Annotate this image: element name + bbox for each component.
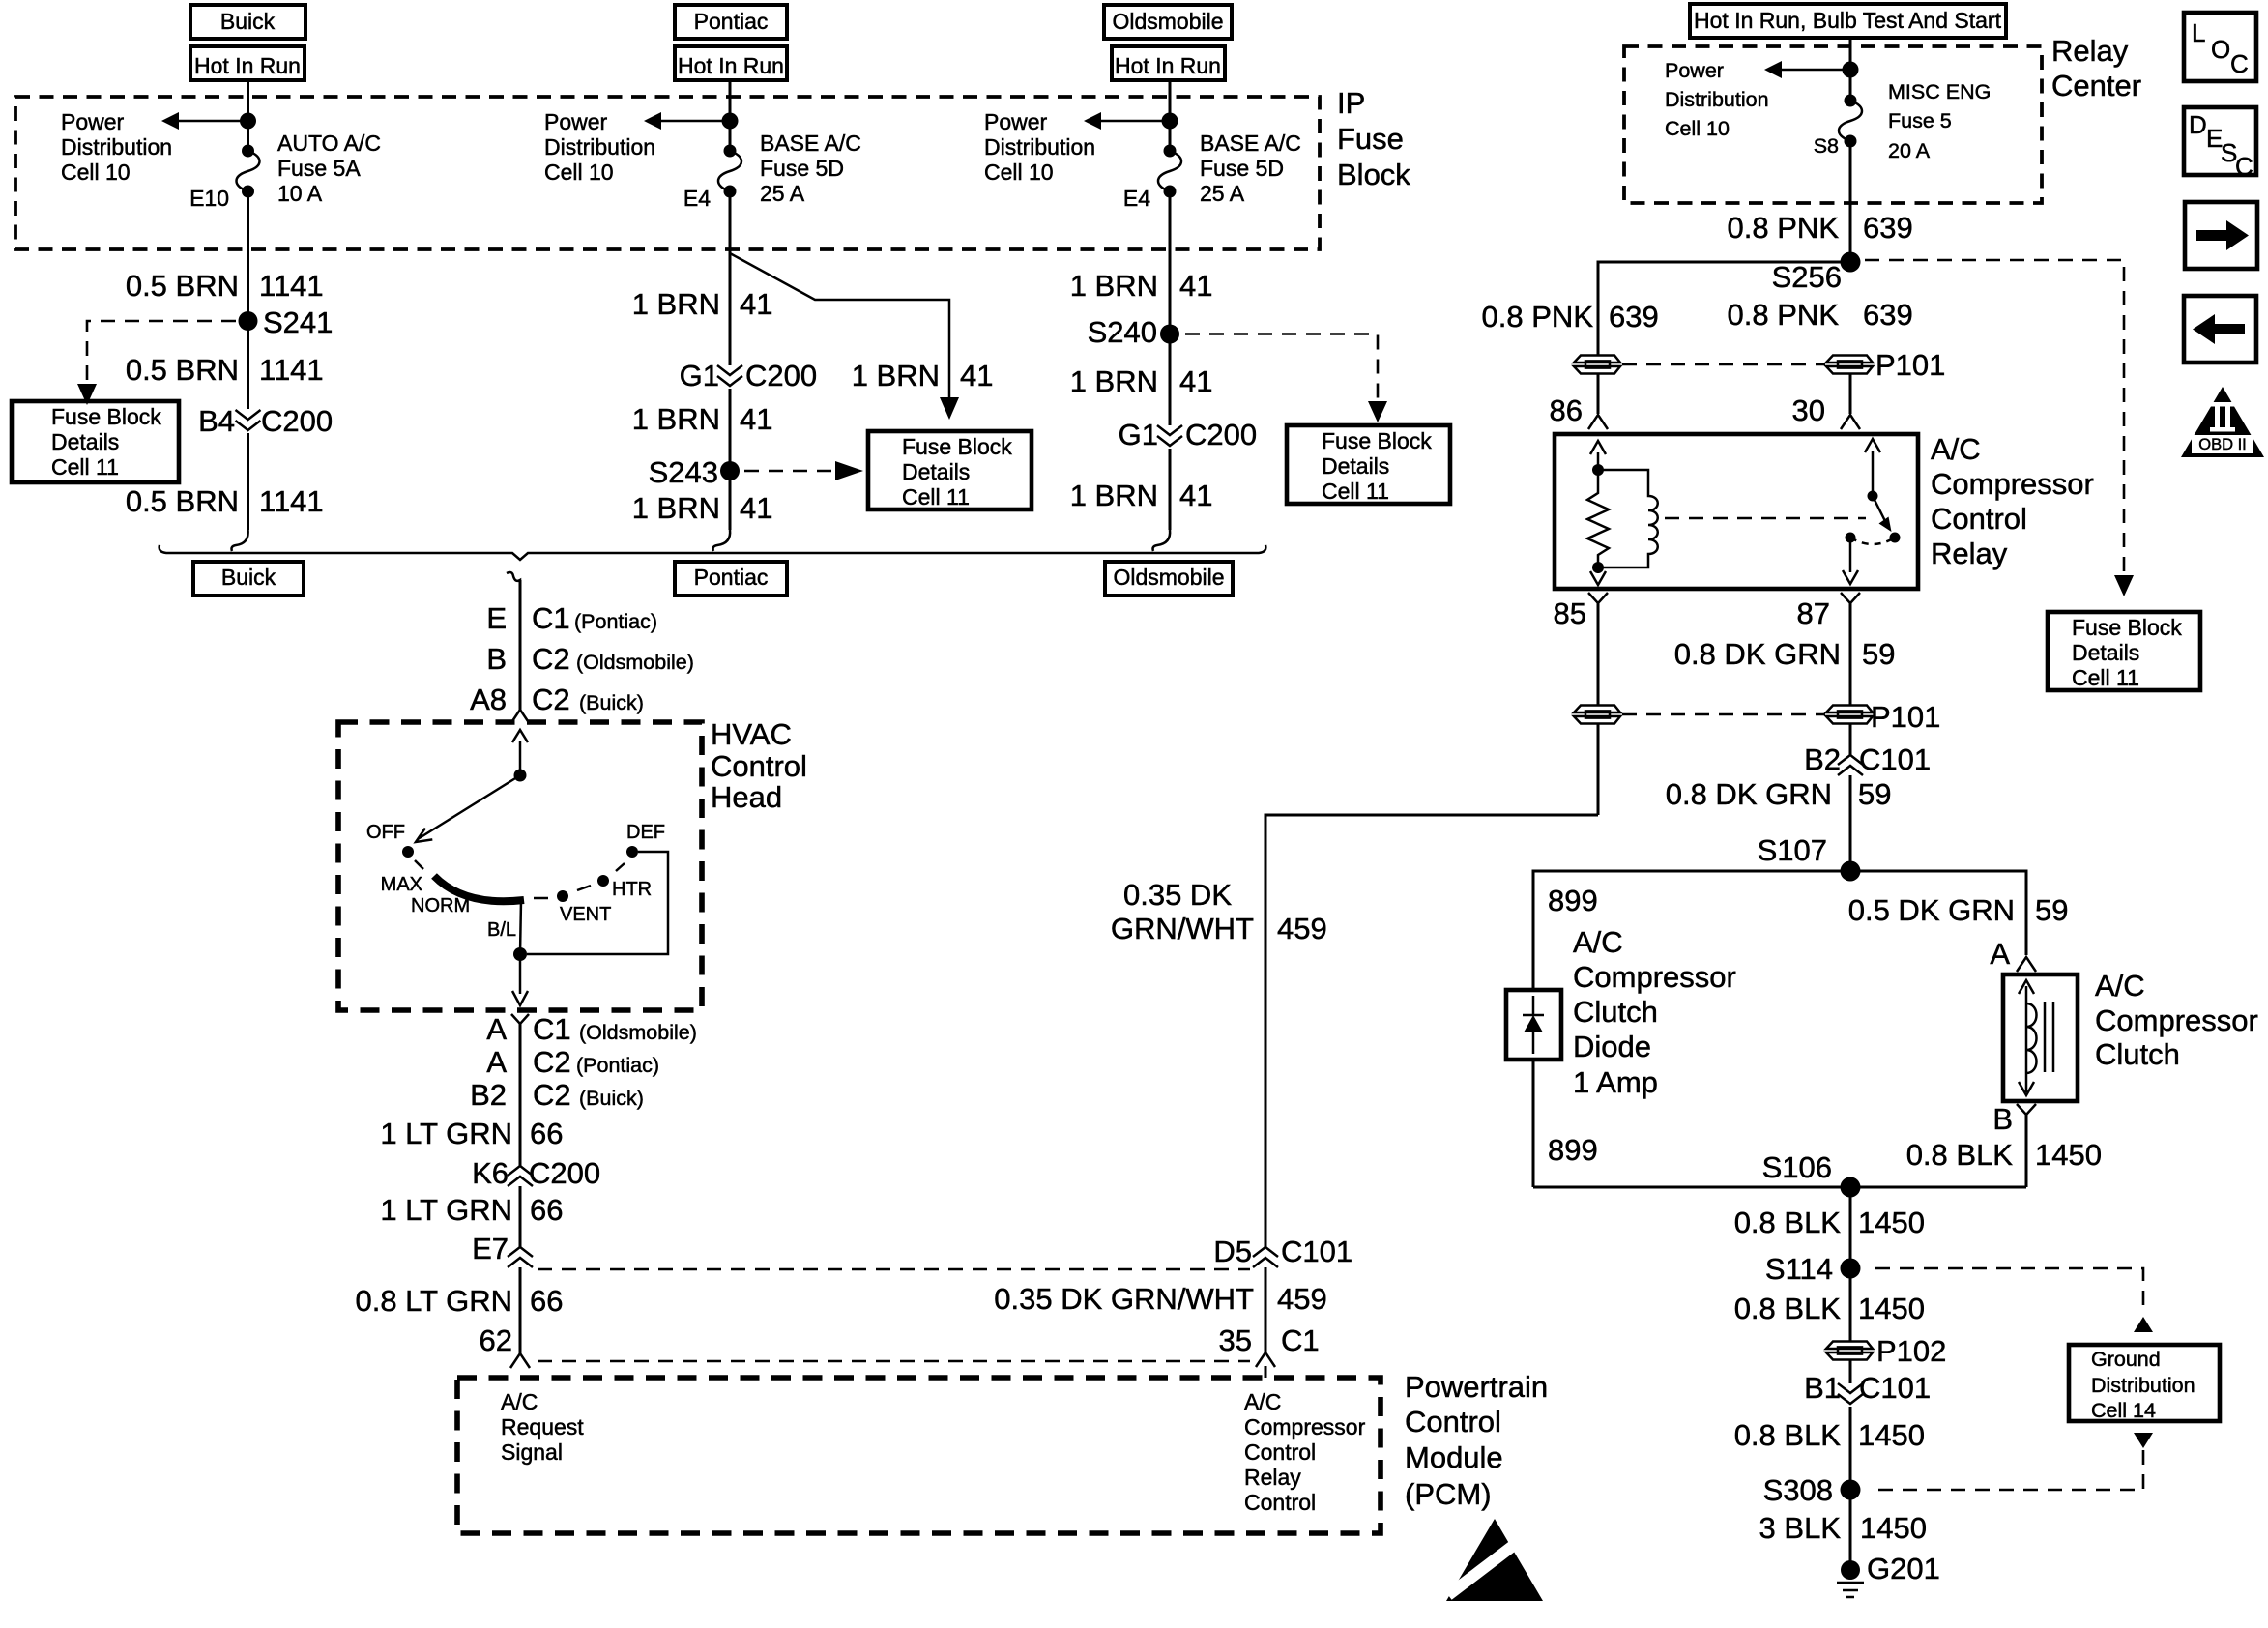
svg-text:Details: Details — [51, 429, 119, 454]
wire G1 to S243 — [729, 389, 732, 530]
svg-text:(Pontiac): (Pontiac) — [574, 610, 657, 633]
svg-text:MISC ENG: MISC ENG — [1888, 80, 1991, 103]
svg-text:OFF: OFF — [366, 822, 405, 843]
svg-text:E7: E7 — [472, 1232, 509, 1265]
svg-text:1450: 1450 — [1858, 1206, 1925, 1239]
svg-text:Compressor: Compressor — [2095, 1003, 2258, 1037]
svg-text:C1: C1 — [532, 601, 570, 635]
triangle from Ground Distribution — [2134, 1433, 2153, 1448]
box Hot In Run (Pontiac) — [675, 46, 787, 80]
svg-text:MAX: MAX — [381, 874, 422, 895]
node S243 — [720, 461, 740, 480]
connector B4 C200 — [236, 410, 261, 430]
svg-text:Cell 11: Cell 11 — [902, 484, 970, 509]
svg-text:Hot In Run: Hot In Run — [194, 53, 301, 78]
svg-text:85: 85 — [1554, 596, 1586, 630]
svg-text:Pontiac: Pontiac — [694, 565, 769, 590]
wire Buick feed — [247, 80, 249, 121]
svg-text:Head: Head — [711, 780, 782, 814]
svg-text:S243: S243 — [649, 455, 718, 489]
box Buick (top) — [190, 5, 305, 39]
svg-text:Fuse 5: Fuse 5 — [1888, 109, 1952, 132]
svg-text:S256: S256 — [1772, 260, 1842, 294]
wire arrow to Power Distribution (Olds) — [1100, 120, 1170, 123]
svg-text:(Pontiac): (Pontiac) — [576, 1054, 659, 1077]
wire dashed S114 to ground dist — [1875, 1268, 2143, 1313]
connector B1 C101 — [1838, 1383, 1863, 1404]
wire dashed S241 to Fuse Block Details — [87, 321, 236, 385]
svg-text:D5: D5 — [1213, 1235, 1252, 1268]
svg-text:C: C — [2235, 152, 2253, 181]
svg-text:B/L: B/L — [487, 919, 516, 941]
svg-text:0.5 BRN: 0.5 BRN — [126, 484, 239, 518]
wire dot to fuse (Olds) — [1169, 121, 1172, 153]
svg-text:66: 66 — [530, 1284, 563, 1318]
svg-text:Distribution: Distribution — [984, 134, 1095, 160]
svg-text:(Buick): (Buick) — [579, 1087, 644, 1110]
wire diode to loop bottom — [1532, 1060, 1535, 1187]
node relay coil bottom — [1592, 562, 1604, 573]
svg-text:3 BLK: 3 BLK — [1759, 1511, 1842, 1545]
clutch coil wire w/ arrows — [2019, 980, 2037, 1095]
svg-text:S8: S8 — [1814, 134, 1839, 158]
svg-text:Control: Control — [1931, 502, 2027, 536]
svg-text:0.8 PNK: 0.8 PNK — [1482, 300, 1594, 334]
connector G1 C200 (Pontiac) — [717, 365, 742, 386]
wire hook Oldsmobile to bus — [1153, 530, 1171, 551]
svg-text:C2: C2 — [532, 683, 570, 716]
svg-text:0.8 LT GRN: 0.8 LT GRN — [355, 1284, 512, 1318]
wire arrow to Power Distribution (Buick) — [178, 120, 248, 123]
svg-text:Relay: Relay — [1244, 1465, 1301, 1490]
node switch contact left — [1846, 533, 1856, 543]
wire fuse to G1 (Pontiac) — [729, 191, 732, 365]
svg-text:59: 59 — [1858, 777, 1891, 811]
wire bus gather line — [160, 545, 1266, 560]
svg-text:C1: C1 — [533, 1012, 571, 1046]
fuse AUTO A/C 10A — [237, 145, 260, 198]
svg-text:Request: Request — [501, 1414, 584, 1439]
svg-text:1 LT GRN: 1 LT GRN — [380, 1117, 512, 1150]
svg-text:1 BRN: 1 BRN — [1070, 269, 1158, 303]
node S240 — [1160, 325, 1179, 344]
svg-text:Buick: Buick — [220, 9, 276, 34]
node feed junction (S8 top) — [1843, 62, 1859, 78]
wire arrow to Power Distribution (RC) — [1781, 69, 1850, 72]
box Fuse Block Details Cell 11 (middle) — [868, 431, 1032, 509]
ESD symbol — [1446, 1519, 1543, 1601]
node S256 — [1841, 252, 1861, 273]
wire S256 left branch — [1598, 262, 1850, 356]
svg-text:C: C — [2230, 49, 2249, 78]
svg-text:87: 87 — [1797, 596, 1830, 630]
svg-text:Module: Module — [1405, 1440, 1503, 1474]
box Hot In Run (Buick) — [190, 46, 305, 80]
svg-text:VENT: VENT — [560, 904, 611, 925]
switch blade — [1873, 496, 1885, 521]
node S308 — [1841, 1480, 1861, 1500]
svg-text:S240: S240 — [1088, 315, 1157, 349]
svg-text:Compressor: Compressor — [1573, 960, 1736, 994]
svg-text:1 BRN: 1 BRN — [852, 359, 940, 392]
svg-text:Fuse 5D: Fuse 5D — [760, 156, 844, 181]
svg-text:Fuse Block: Fuse Block — [2072, 615, 2182, 640]
svg-text:Clutch: Clutch — [1573, 995, 1658, 1029]
svg-text:(Buick): (Buick) — [579, 691, 644, 714]
svg-text:0.8 BLK: 0.8 BLK — [1734, 1292, 1842, 1325]
svg-text:Buick: Buick — [221, 565, 276, 590]
svg-text:Cell 10: Cell 10 — [984, 160, 1054, 185]
svg-text:C2: C2 — [533, 1078, 571, 1112]
connector G1 C200 (Olds) — [1157, 425, 1182, 446]
svg-text:Oldsmobile: Oldsmobile — [1112, 9, 1223, 34]
svg-text:Cell 10: Cell 10 — [61, 160, 131, 185]
svg-text:Fuse Block: Fuse Block — [902, 434, 1012, 459]
svg-text:B1: B1 — [1804, 1371, 1841, 1405]
A/C Compressor Control Relay box — [1555, 434, 1918, 589]
node HVAC wiper pivot — [514, 770, 527, 782]
node switch pivot — [1868, 491, 1878, 502]
svg-text:G1: G1 — [680, 359, 719, 392]
box Pontiac (top) — [675, 5, 787, 39]
svg-text:0.8 DK GRN: 0.8 DK GRN — [1666, 777, 1832, 811]
wire dashed P101 pair — [1622, 363, 1825, 366]
svg-text:35: 35 — [1219, 1323, 1252, 1357]
svg-text:HTR: HTR — [612, 879, 652, 900]
svg-text:30: 30 — [1792, 393, 1825, 427]
wire dashed P101 second pair — [1622, 713, 1825, 716]
svg-text:Distribution: Distribution — [1665, 88, 1769, 111]
wire G1 to bus (Olds) — [1169, 449, 1172, 530]
wire feed into relay center — [1849, 38, 1852, 70]
icon back arrow box — [2184, 296, 2256, 363]
svg-text:Control: Control — [1244, 1490, 1316, 1515]
svg-text:IP: IP — [1337, 86, 1365, 120]
svg-text:BASE A/C: BASE A/C — [1200, 131, 1301, 156]
svg-text:E4: E4 — [1123, 186, 1150, 211]
wire dashed S240 to Fuse Block Details — [1185, 334, 1378, 403]
dial dashed arc OFF-MAX — [415, 860, 423, 869]
svg-text:C101: C101 — [1859, 742, 1931, 776]
triangle to Ground Distribution — [2134, 1317, 2153, 1332]
svg-text:Cell 11: Cell 11 — [51, 454, 119, 480]
svg-text:L: L — [2192, 18, 2205, 47]
clutch plates bars — [2044, 1002, 2047, 1072]
svg-text:1 LT GRN: 1 LT GRN — [380, 1193, 512, 1227]
svg-text:C2: C2 — [532, 642, 570, 676]
svg-text:E4: E4 — [683, 186, 711, 211]
svg-text:Cell 10: Cell 10 — [1665, 117, 1730, 140]
box Oldsmobile (top) — [1104, 5, 1232, 39]
node Oldsmobile feed junction — [1162, 113, 1178, 130]
box Hot In Run, Bulb Test And Start — [1690, 4, 2006, 38]
node Buick feed junction — [240, 113, 256, 130]
box Oldsmobile (bus) — [1105, 562, 1233, 596]
fuse MISC ENG Fuse 5 20A — [1839, 95, 1862, 148]
svg-text:1 BRN: 1 BRN — [632, 491, 720, 525]
svg-text:66: 66 — [530, 1117, 563, 1150]
svg-text:(Oldsmobile): (Oldsmobile) — [576, 651, 694, 674]
wire HVAC output arrow — [519, 954, 522, 994]
svg-text:Cell 14: Cell 14 — [2091, 1399, 2156, 1422]
svg-text:O: O — [2211, 35, 2230, 64]
dashed actuator link — [1665, 517, 1866, 520]
svg-text:Fuse 5D: Fuse 5D — [1200, 156, 1284, 181]
wire junction to fuse (RC) — [1849, 70, 1852, 102]
svg-text:10 A: 10 A — [277, 181, 323, 206]
wire fuse to S256 — [1849, 141, 1852, 262]
wire Oldsmobile feed — [1169, 80, 1172, 121]
svg-text:86: 86 — [1550, 393, 1583, 427]
dial thick arc MAX-B/L — [434, 876, 524, 901]
dashed contact arc — [1850, 538, 1895, 544]
wire 35 into PCM — [1265, 1366, 1267, 1378]
wire clutch loop bottom — [1533, 1186, 2026, 1189]
svg-text:Details: Details — [902, 459, 970, 484]
connector P101 second (right) — [1826, 706, 1873, 724]
wire S106 down — [1849, 1187, 1852, 1268]
svg-text:Details: Details — [2072, 640, 2139, 665]
svg-text:C200: C200 — [529, 1156, 600, 1190]
svg-text:P101: P101 — [1871, 700, 1940, 734]
wire P101 to pin86 — [1597, 374, 1600, 414]
relay output arrow — [1849, 538, 1852, 572]
pin chevron A8 — [510, 710, 530, 724]
svg-text:(PCM): (PCM) — [1405, 1477, 1492, 1511]
relay coil output arrow — [1597, 567, 1600, 573]
svg-text:Compressor: Compressor — [1931, 467, 2094, 501]
node HVAC output junction — [513, 947, 527, 961]
svg-text:0.8 BLK: 0.8 BLK — [1906, 1138, 2014, 1172]
svg-text:41: 41 — [1179, 364, 1212, 398]
svg-text:1450: 1450 — [1858, 1418, 1925, 1452]
svg-text:Ground: Ground — [2091, 1348, 2161, 1371]
svg-text:G201: G201 — [1867, 1552, 1940, 1585]
svg-text:Fuse 5A: Fuse 5A — [277, 156, 361, 181]
svg-text:E: E — [486, 601, 507, 635]
wire diagonal fuse-block tap — [730, 253, 949, 398]
wire dashed A/C request E7-D5 — [538, 1268, 1250, 1271]
svg-text:1141: 1141 — [259, 269, 324, 303]
connector P101 (right, pin30) — [1826, 356, 1873, 374]
HVAC Control Head dashed box — [338, 722, 702, 1010]
svg-text:41: 41 — [960, 359, 993, 392]
svg-text:Fuse Block: Fuse Block — [51, 404, 161, 429]
wire hook below bus — [507, 572, 520, 590]
wire HVAC input arrow — [519, 741, 522, 775]
svg-text:639: 639 — [1609, 300, 1659, 334]
relay coil input arrow — [1597, 452, 1600, 470]
svg-text:E10: E10 — [189, 186, 229, 211]
svg-text:C101: C101 — [1859, 1371, 1931, 1405]
svg-text:P102: P102 — [1876, 1334, 1946, 1368]
svg-text:C101: C101 — [1281, 1235, 1352, 1268]
svg-text:0.8 DK GRN: 0.8 DK GRN — [1674, 637, 1841, 671]
connector D5 C101 — [1253, 1247, 1278, 1267]
svg-text:Hot In Run, Bulb Test And Star: Hot In Run, Bulb Test And Start — [1694, 8, 2002, 33]
svg-text:A/C: A/C — [1573, 925, 1623, 959]
svg-text:639: 639 — [1863, 211, 1913, 245]
wire dashed A/C request 62-35 — [538, 1360, 1250, 1363]
svg-text:K6: K6 — [472, 1156, 509, 1190]
wire C200 to bus (Buick) — [247, 433, 249, 530]
wire dashed ground dist to S308 — [1876, 1450, 2143, 1490]
wire P101 to pin30 — [1849, 374, 1852, 414]
node Pontiac feed junction — [722, 113, 739, 130]
wire 87 to B2 — [1849, 724, 1852, 755]
svg-text:1 BRN: 1 BRN — [632, 402, 720, 436]
wire dot to fuse — [247, 121, 249, 153]
svg-text:Distribution: Distribution — [61, 134, 172, 160]
svg-text:0.5 DK GRN: 0.5 DK GRN — [1848, 893, 2015, 927]
box Pontiac (bus) — [675, 562, 787, 596]
wire dot to fuse (Pontiac) — [729, 121, 732, 153]
svg-text:41: 41 — [740, 287, 772, 321]
svg-text:Powertrain: Powertrain — [1405, 1370, 1548, 1404]
svg-text:NORM: NORM — [411, 895, 470, 916]
svg-text:0.8 PNK: 0.8 PNK — [1728, 211, 1840, 245]
svg-text:41: 41 — [740, 402, 772, 436]
svg-text:Fuse Block: Fuse Block — [1322, 428, 1432, 453]
svg-text:66: 66 — [530, 1193, 563, 1227]
svg-text:B4: B4 — [198, 404, 235, 438]
wire HVAC out to K6 — [519, 1024, 522, 1166]
svg-text:Distribution: Distribution — [2091, 1374, 2195, 1397]
svg-text:A: A — [486, 1045, 507, 1079]
svg-text:0.5 BRN: 0.5 BRN — [126, 269, 239, 303]
svg-text:0.35 DK GRN/WHT: 0.35 DK GRN/WHT — [994, 1282, 1254, 1316]
svg-text:Center: Center — [2051, 69, 2141, 102]
svg-text:41: 41 — [740, 491, 772, 525]
node HTR contact — [597, 875, 609, 887]
svg-text:Control: Control — [1405, 1405, 1501, 1439]
svg-text:Hot In Run: Hot In Run — [1115, 53, 1221, 78]
svg-text:Power: Power — [1665, 59, 1724, 82]
wire S241 to B4 — [247, 321, 249, 409]
wire bus to HVAC — [519, 580, 522, 710]
node S107 — [1841, 861, 1861, 882]
svg-text:S308: S308 — [1763, 1473, 1833, 1507]
svg-text:C2: C2 — [533, 1045, 571, 1079]
svg-text:A/C: A/C — [1244, 1389, 1281, 1414]
svg-text:1141: 1141 — [259, 353, 324, 387]
connector K6 C200 — [508, 1166, 533, 1186]
svg-text:Power: Power — [61, 109, 125, 134]
fuse BASE A/C 25A (Pontiac) — [718, 145, 741, 198]
svg-text:1 BRN: 1 BRN — [632, 287, 720, 321]
wire B/L output — [520, 900, 521, 954]
svg-text:Hot In Run: Hot In Run — [678, 53, 784, 78]
wire clutch loop top — [1533, 871, 2026, 990]
svg-text:C1: C1 — [1281, 1323, 1320, 1357]
svg-text:62: 62 — [480, 1323, 512, 1357]
wire DEF loop — [527, 852, 668, 954]
svg-text:B2: B2 — [1804, 742, 1841, 776]
ground G201 — [1841, 1560, 1860, 1580]
fuse BASE A/C 25A (Olds) — [1158, 145, 1181, 198]
Relay Center dashed box — [1624, 46, 2042, 203]
diode symbol — [1523, 996, 1544, 1054]
relay switch common arrow — [1872, 451, 1875, 496]
wire S114 to P102 — [1849, 1268, 1852, 1341]
svg-text:S114: S114 — [1765, 1252, 1833, 1286]
connector B2 C101 — [1838, 755, 1863, 775]
svg-text:0.35 DK: 0.35 DK — [1123, 878, 1232, 912]
dial dashed arc HTR-DEF — [616, 863, 625, 871]
dial dashed arc VENT-HTR — [577, 886, 591, 890]
svg-text:C200: C200 — [261, 404, 333, 438]
node VENT contact — [557, 890, 568, 902]
svg-text:Cell 10: Cell 10 — [544, 160, 614, 185]
svg-text:41: 41 — [1179, 479, 1212, 512]
svg-text:Oldsmobile: Oldsmobile — [1113, 565, 1224, 590]
wire clutch B down — [2025, 1115, 2028, 1187]
svg-text:41: 41 — [1179, 269, 1212, 303]
icon LOC box — [2184, 13, 2256, 81]
connector P102 — [1826, 1342, 1873, 1360]
svg-text:0.8 BLK: 0.8 BLK — [1734, 1206, 1842, 1239]
svg-text:Pontiac: Pontiac — [694, 9, 769, 34]
node switch contact right — [1890, 533, 1901, 543]
svg-text:0.8 PNK: 0.8 PNK — [1728, 298, 1840, 332]
svg-text:20 A: 20 A — [1888, 139, 1931, 162]
wire P102 to B1 — [1849, 1360, 1852, 1383]
wire 459 riser — [1265, 815, 1598, 1247]
svg-text:Fuse: Fuse — [1337, 122, 1404, 156]
node S106 — [1841, 1177, 1861, 1198]
svg-text:1 BRN: 1 BRN — [1070, 364, 1158, 398]
node OFF contact — [402, 846, 414, 858]
connector P101 second (left) — [1574, 706, 1620, 724]
svg-text:S107: S107 — [1758, 833, 1827, 867]
svg-text:Diode: Diode — [1573, 1030, 1651, 1063]
wire D5 to 35 — [1265, 1267, 1267, 1352]
wire dashed S256 to Fuse Block Details — [1865, 260, 2124, 575]
svg-text:Control: Control — [711, 749, 807, 783]
svg-text:899: 899 — [1548, 1133, 1598, 1167]
svg-text:B2: B2 — [470, 1078, 507, 1112]
icon DESC box — [2184, 107, 2256, 181]
A/C Compressor Clutch Diode box — [1506, 990, 1561, 1060]
box Buick (bus) — [193, 562, 304, 596]
pin chevron HVAC out — [511, 1014, 529, 1024]
svg-text:0.8 BLK: 0.8 BLK — [1734, 1418, 1842, 1452]
svg-text:G1: G1 — [1119, 418, 1158, 451]
svg-text:A/C: A/C — [1931, 432, 1981, 466]
A/C Compressor Clutch box — [2003, 974, 2078, 1101]
svg-text:Power: Power — [544, 109, 608, 134]
svg-text:1450: 1450 — [2035, 1138, 2102, 1172]
svg-text:Signal: Signal — [501, 1439, 563, 1465]
svg-text:D: D — [2189, 110, 2207, 139]
svg-text:HVAC: HVAC — [711, 717, 792, 751]
wire S308 to G201 — [1849, 1490, 1852, 1570]
box Fuse Block Details Cell 11 (RC) — [2048, 612, 2200, 690]
icon OBD II triangle — [2181, 387, 2264, 457]
IP fuse block dashed box — [15, 97, 1320, 249]
svg-text:25 A: 25 A — [760, 181, 805, 206]
svg-text:Block: Block — [1337, 158, 1410, 191]
svg-text:1 Amp: 1 Amp — [1573, 1065, 1658, 1099]
svg-text:Details: Details — [1322, 453, 1389, 479]
wire Pontiac feed — [729, 80, 732, 121]
box Ground Distribution Cell 14 — [2069, 1345, 2220, 1421]
svg-text:P101: P101 — [1875, 348, 1945, 382]
svg-text:A8: A8 — [470, 683, 507, 716]
wire hook Buick to bus — [232, 530, 248, 551]
svg-text:AUTO A/C: AUTO A/C — [277, 131, 381, 156]
node relay coil top — [1592, 464, 1604, 476]
